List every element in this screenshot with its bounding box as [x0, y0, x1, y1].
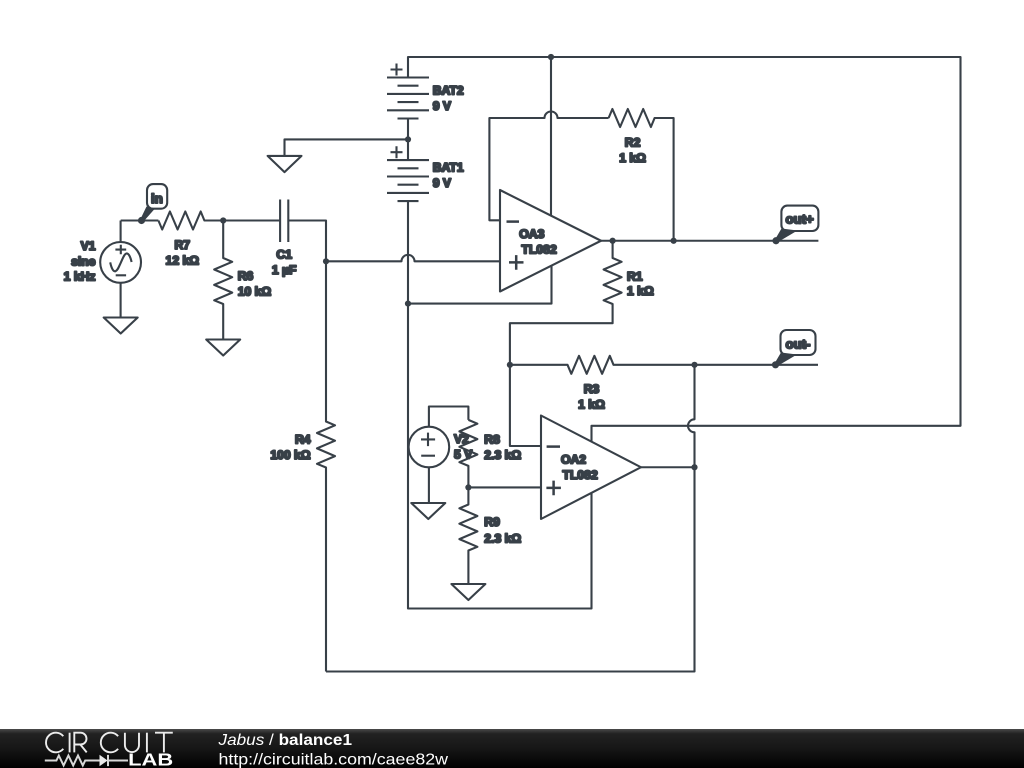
ground (R6): [206, 340, 240, 356]
svg-text:R8: R8: [484, 432, 500, 446]
voltage source V1 (sine): [100, 221, 141, 318]
wire node K to OA2 plus input: [468, 486, 541, 488]
capacitor C1: [280, 200, 326, 262]
voltage source V2: [409, 407, 469, 504]
ground (battery mid): [268, 156, 302, 172]
wire R7 node to C1: [223, 219, 280, 221]
svg-text:out-: out-: [786, 336, 811, 351]
wire top +9V rail: battery top to right edge, down, to OA2 V+ riser (hop at x=694.5): [408, 57, 961, 442]
node F junction output/R1: [610, 238, 616, 244]
svg-text:LAB: LAB: [128, 749, 173, 768]
node H junction R1/R3/OA2-: [507, 362, 513, 368]
svg-text:in: in: [151, 191, 163, 206]
svg-text:TL082: TL082: [522, 242, 557, 256]
wire OA3 V- pin to -9V rail: [408, 266, 552, 304]
svg-text:1 kHz: 1 kHz: [64, 270, 96, 284]
resistor R8: [459, 420, 477, 488]
svg-text:1 kΩ: 1 kΩ: [627, 284, 654, 298]
svg-text:http://circuitlab.com/caee82w: http://circuitlab.com/caee82w: [219, 752, 449, 768]
svg-text:R1: R1: [627, 269, 643, 283]
wire OA2 minus input from node H: [510, 365, 541, 446]
svg-text:R9: R9: [484, 515, 500, 529]
resistor R7: [158, 212, 223, 230]
wire OA3 V+ riser from top rail: [550, 57, 552, 216]
wire OA3 minus input loop up to R2 (hop over V+ riser at x=551): [489, 112, 608, 221]
op-amp OA3: [500, 190, 601, 292]
svg-text:2.3 kΩ: 2.3 kΩ: [484, 532, 521, 546]
svg-text:sine: sine: [71, 254, 96, 268]
node B battery mid junction: [405, 136, 411, 142]
wire bottom loop R4 to OA2 output node: [326, 365, 695, 672]
svg-text:R6: R6: [238, 269, 254, 283]
flag out+: [772, 206, 818, 245]
node E junction C1/R4/OA3+: [323, 258, 329, 264]
svg-text:TL082: TL082: [563, 468, 598, 482]
node K junction R8/R9/OA2+: [465, 484, 471, 490]
svg-text:R7: R7: [175, 238, 191, 252]
svg-text:BAT1: BAT1: [433, 161, 464, 175]
svg-text:OA3: OA3: [519, 227, 544, 241]
resistor R6: [214, 221, 232, 340]
svg-text:OA2: OA2: [561, 453, 586, 467]
ground (V2): [411, 503, 445, 519]
svg-text:R3: R3: [584, 382, 600, 396]
wire V1 to R7: [121, 219, 159, 221]
node A junction top rail / OA3 V+ riser: [548, 54, 554, 60]
resistor R4: [317, 261, 335, 671]
footer bar: [0, 729, 1024, 768]
svg-text:out+: out+: [785, 212, 814, 227]
svg-text:1 kΩ: 1 kΩ: [578, 398, 605, 412]
svg-text:9 V: 9 V: [433, 99, 452, 113]
node I junction R3/out-/loop: [691, 362, 697, 368]
svg-text:100 kΩ: 100 kΩ: [270, 448, 310, 462]
node G junction output/R2: [671, 238, 677, 244]
svg-text:V1: V1: [81, 239, 96, 253]
svg-text:9 V: 9 V: [433, 176, 452, 190]
wire OA2 output to node I vertical: [641, 466, 695, 468]
svg-text:1 µF: 1 µF: [272, 263, 297, 277]
svg-text:2.3 kΩ: 2.3 kΩ: [484, 448, 521, 462]
svg-text:BAT2: BAT2: [433, 84, 464, 98]
ground (R9): [451, 584, 485, 600]
node C junction -9V / OA3 V-: [405, 301, 411, 307]
logo resistor-diode line: [45, 755, 128, 766]
svg-text:10 kΩ: 10 kΩ: [238, 285, 272, 299]
logo CIRCUIT (drawn thin letters): [46, 733, 173, 753]
ground (V1): [104, 318, 138, 334]
svg-text:C1: C1: [276, 247, 292, 261]
svg-text:R2: R2: [625, 136, 641, 150]
wire battery mid to ground: [285, 139, 409, 156]
wire R3 node to out-: [695, 364, 819, 366]
wire OA3 output to out+: [601, 240, 818, 242]
svg-text:1 kΩ: 1 kΩ: [619, 151, 646, 165]
battery BAT1: [387, 139, 429, 201]
svg-text:R4: R4: [295, 433, 311, 447]
flag in: [138, 184, 167, 224]
wire -9V vertical from BAT1 down to OA2 V- (long): [408, 201, 592, 608]
op-amp OA2: [541, 416, 641, 520]
node D junction R7/R6/C1: [220, 217, 226, 223]
resistor R3: [510, 356, 695, 374]
wire node E to OA3 plus input (hop over -9V at x=408): [326, 255, 500, 261]
resistor R2: [609, 109, 674, 241]
resistor R1: [510, 241, 622, 365]
svg-text:Jabus / balance1: Jabus / balance1: [217, 732, 352, 749]
resistor R9: [459, 487, 477, 584]
svg-text:12 kΩ: 12 kΩ: [166, 254, 200, 268]
battery BAT2: [387, 64, 429, 140]
node J junction OA2 out: [691, 464, 697, 470]
flag out-: [772, 330, 816, 368]
